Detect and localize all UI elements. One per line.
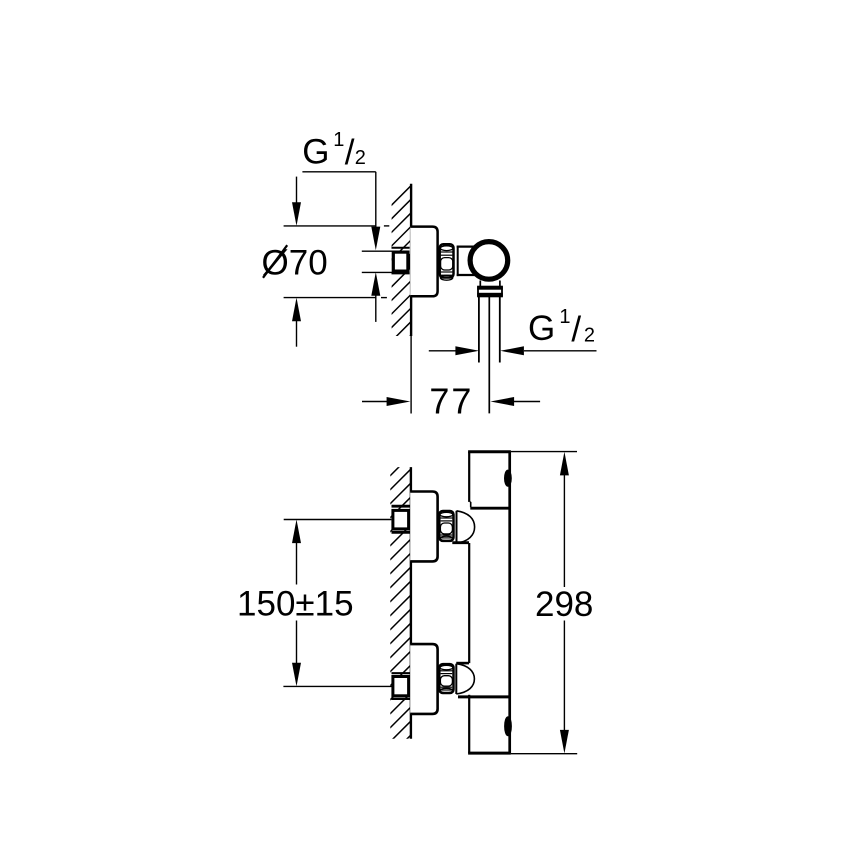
knob circle (top figure) xyxy=(470,242,508,280)
wall line (bottom figure) xyxy=(410,467,412,739)
dimension G 1/2 (wall union thread, top) xyxy=(302,172,375,322)
mixer body bar xyxy=(452,452,511,753)
svg-text:/: / xyxy=(571,310,581,349)
outlet neck below knob xyxy=(480,281,500,288)
bottom union: dome xyxy=(456,664,474,694)
top union: dome xyxy=(457,511,475,543)
svg-text:77: 77 xyxy=(429,380,473,421)
wall union square nut (top figure) xyxy=(392,248,411,274)
svg-text:150±15: 150±15 xyxy=(237,585,354,624)
label G 1/2 (hose) xyxy=(528,306,595,349)
wall line (top figure) xyxy=(410,184,412,336)
hose nut xyxy=(477,287,503,297)
svg-text:/: / xyxy=(345,133,355,172)
bottom union: wall square xyxy=(392,673,411,699)
dimension Ø70 xyxy=(284,177,390,347)
svg-text:G: G xyxy=(302,132,329,171)
label G 1/2 (top) xyxy=(302,129,366,172)
valve body (top figure) xyxy=(457,246,478,277)
top union: nut xyxy=(439,511,453,541)
svg-text:1: 1 xyxy=(333,129,344,151)
bottom union: nut xyxy=(439,664,453,693)
svg-text:Ø70: Ø70 xyxy=(262,244,328,283)
shower hose xyxy=(479,296,500,362)
dimension 77 xyxy=(362,401,540,403)
dimension 298 xyxy=(511,452,577,754)
screw detail top xyxy=(505,471,511,486)
wall hatching (bottom figure) xyxy=(390,454,412,770)
hose centre line / extension for 77 dim xyxy=(488,296,490,413)
svg-text:2: 2 xyxy=(355,147,366,169)
svg-text:298: 298 xyxy=(535,585,593,624)
bottom union: escutcheon xyxy=(410,644,437,714)
dimension 150±15 xyxy=(283,520,392,687)
wall extension line for 77 dim xyxy=(410,336,412,414)
top union: wall square xyxy=(392,506,411,532)
top union: escutcheon xyxy=(410,492,437,562)
wall hatching (top figure) xyxy=(391,185,412,369)
screw detail bottom xyxy=(505,717,511,735)
escutcheon (top figure, side view) xyxy=(410,227,437,297)
svg-text:2: 2 xyxy=(584,324,595,346)
svg-text:1: 1 xyxy=(559,306,570,328)
supply pipe stub through wall xyxy=(362,251,393,272)
union nut (top figure) xyxy=(440,244,454,280)
svg-text:G: G xyxy=(528,309,555,348)
dimension G 1/2 (hose thread) xyxy=(429,350,597,352)
